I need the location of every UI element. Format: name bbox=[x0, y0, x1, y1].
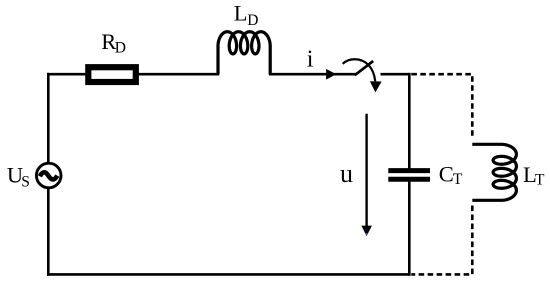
svg-text:L: L bbox=[234, 1, 248, 26]
svg-text:u: u bbox=[340, 159, 353, 188]
svg-text:S: S bbox=[21, 174, 30, 191]
svg-text:C: C bbox=[439, 161, 454, 186]
svg-text:D: D bbox=[247, 12, 258, 29]
svg-text:i: i bbox=[307, 46, 314, 72]
svg-text:D: D bbox=[115, 40, 126, 57]
svg-text:T: T bbox=[453, 171, 463, 188]
svg-text:T: T bbox=[535, 172, 545, 189]
